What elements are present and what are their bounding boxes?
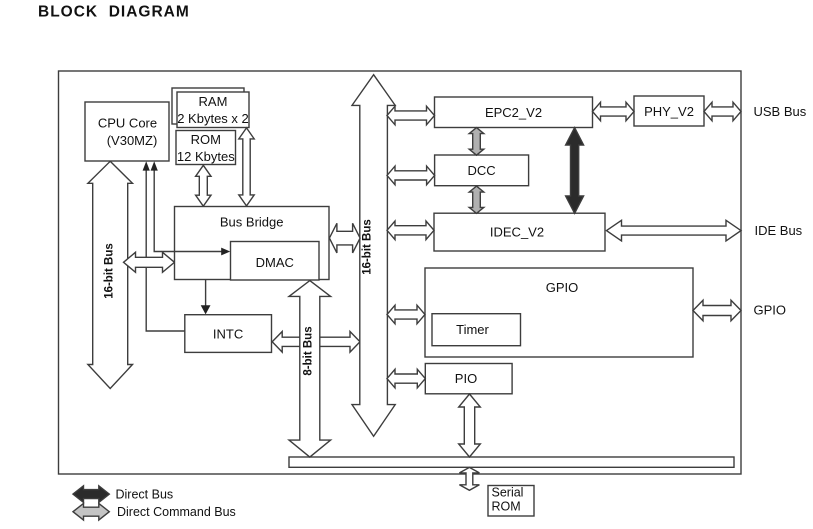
block RAM 2 Kbytes x 2 [177,92,249,128]
bus arrow: IDEC_V2 to IDE pins [607,220,742,241]
bus arrow: 8-bit bus (vertical) [289,281,331,458]
block CPU Core (V30MZ) [85,102,169,161]
bottom internal bus bar [289,457,734,467]
svg-text:GPIO: GPIO [754,303,787,318]
bus arrow: RAM to Bus Bridge [239,128,254,206]
bus arrow: CPU bus to Bus Bridge [124,252,175,272]
wire: direct line Bus Bridge to CPU / INTC branch [146,168,185,331]
block RAM shadow box [172,88,244,124]
bus arrow: 16-bit bus to GPIO [387,305,425,324]
svg-text:PHY_V2: PHY_V2 [644,104,694,119]
bus arrow: 16-bit bus to EPC2_V2 [387,106,435,125]
svg-text:2 Kbytes x 2: 2 Kbytes x 2 [177,111,249,126]
block DMAC [231,242,320,281]
bus arrow: PIO to serial bus bar [459,394,481,457]
block Serial ROM [488,486,534,517]
block ROM 12 Kbytes [176,131,236,165]
bus arrow: INTC to 16-bit bus [272,332,360,353]
svg-text:16-bit Bus: 16-bit Bus [362,219,374,275]
arrowhead up into CPU (right thin line) [151,161,158,170]
bus arrow: 16-bit bus to PIO [387,369,425,388]
bus arrow: bus bar to Serial ROM [459,467,479,490]
bus arrow: ROM to Bus Bridge [196,165,211,206]
svg-text:ROM: ROM [492,500,521,514]
bus arrow: main 16-bit bus (center vertical) [352,75,395,437]
bus arrow: PHY_V2 to USB pins [704,102,741,121]
svg-text:(V30MZ): (V30MZ) [107,133,158,148]
svg-text:Timer: Timer [456,322,489,337]
wire: direct line to DMAC (vertical part) [153,168,155,252]
svg-text:IDEC_V2: IDEC_V2 [490,225,544,240]
bus arrow: Bus Bridge to 16-bit bus [329,223,360,253]
block Timer [432,314,521,346]
block EPC2_V2 [435,97,593,128]
svg-text:12 Kbytes: 12 Kbytes [177,149,235,164]
bus arrow: 16-bit bus to DCC [387,166,435,185]
legend direct command bus (gray arrow) [73,503,109,520]
chip outer frame [59,71,742,474]
direct command bus arrow: EPC2_V2 to DCC (gray) [469,128,484,156]
direct bus arrow: EPC2_V2 to IDEC_V2 (black) [566,128,584,214]
svg-text:8-bit Bus: 8-bit Bus [303,326,315,375]
svg-text:RAM: RAM [199,94,228,109]
bus arrow: EPC2_V2 to PHY_V2 [593,102,635,121]
svg-text:GPIO: GPIO [546,280,579,295]
direct command bus arrow: DCC to IDEC_V2 (gray) [469,186,484,213]
svg-text:INTC: INTC [213,326,243,341]
svg-text:BLOCK DIAGRAM: BLOCK DIAGRAM [38,4,190,21]
arrowhead up into CPU (left thin line) [143,161,150,170]
svg-text:PIO: PIO [455,371,477,386]
svg-text:ROM: ROM [191,132,221,147]
arrowhead down into INTC [201,305,211,314]
bus arrow: CPU 16-bit bus (left vertical) [88,161,133,388]
block PHY_V2 [634,96,704,126]
block INTC [185,315,272,353]
block GPIO [425,268,693,357]
svg-text:DCC: DCC [468,163,496,178]
svg-text:Bus Bridge: Bus Bridge [220,215,284,230]
bus arrow: 16-bit bus to IDEC_V2 [387,221,434,240]
block Bus Bridge [175,207,330,280]
block IDEC_V2 [434,213,605,251]
svg-text:USB Bus: USB Bus [754,104,807,119]
svg-text:EPC2_V2: EPC2_V2 [485,105,542,120]
svg-text:Direct Bus: Direct Bus [116,488,174,502]
svg-text:CPU Core: CPU Core [98,115,157,130]
wire: direct line into DMAC (horizontal part) [154,251,223,253]
arrowhead right into DMAC [221,248,230,256]
svg-text:16-bit Bus: 16-bit Bus [104,243,116,299]
bus arrow: GPIO to pins [693,300,741,321]
svg-text:Serial: Serial [492,485,524,499]
svg-text:Direct Command Bus: Direct Command Bus [117,505,236,519]
svg-text:IDE Bus: IDE Bus [755,223,803,238]
wire: Bus Bridge to INTC [205,280,207,307]
block DCC [435,155,529,186]
legend direct bus (black arrow) [73,486,109,503]
block PIO [425,364,512,394]
svg-text:DMAC: DMAC [256,255,294,270]
